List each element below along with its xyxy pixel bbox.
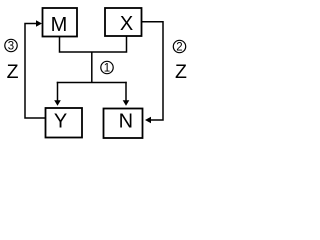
arrow into Y	[54, 82, 61, 106]
wire Y to M feedback (left)	[25, 24, 46, 119]
box N	[104, 109, 143, 139]
svg-text:X: X	[120, 13, 133, 35]
arrow into N	[123, 82, 130, 106]
svg-text:3: 3	[8, 41, 14, 53]
svg-text:Z: Z	[175, 61, 187, 83]
svg-text:Z: Z	[7, 61, 19, 83]
box M	[43, 8, 78, 37]
label circled 1	[101, 61, 113, 74]
arrow into M	[36, 20, 42, 26]
label circled 2	[173, 40, 185, 53]
wire M-X joining bar	[60, 36, 127, 52]
svg-text:N: N	[119, 110, 133, 132]
wire center stem	[91, 52, 93, 83]
box Y	[46, 108, 83, 138]
svg-text:2: 2	[176, 42, 182, 54]
wire lower bar	[57, 82, 127, 84]
box X	[105, 8, 142, 36]
svg-text:M: M	[51, 14, 68, 36]
arrow into N	[145, 117, 151, 123]
wire X to N feedback (right)	[142, 22, 164, 120]
label circled 3	[5, 39, 17, 52]
svg-text:Y: Y	[54, 110, 67, 132]
svg-text:1: 1	[104, 63, 110, 75]
